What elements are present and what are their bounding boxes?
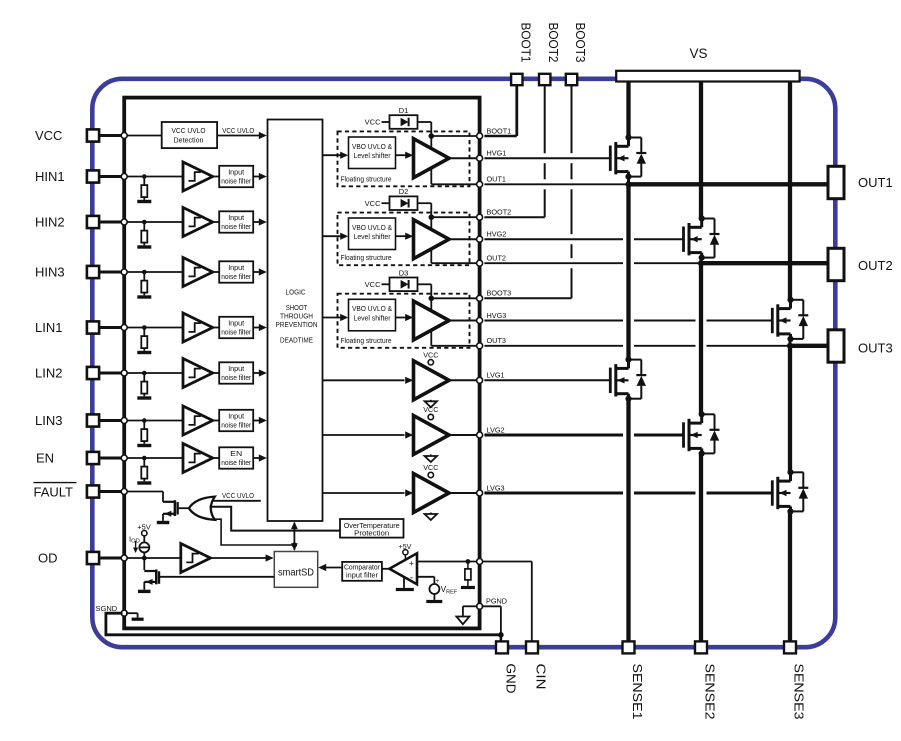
- wire BOOT3 to IC edge: [431, 297, 479, 299]
- high side gate driver 1: [414, 139, 450, 178]
- wire PGND to GND pin: [482, 605, 501, 607]
- pin EN: [87, 452, 99, 464]
- wire LVG1 to mosfet gate: [484, 379, 610, 381]
- svg-text:SGND: SGND: [96, 604, 118, 613]
- svg-text:SENSE2: SENSE2: [703, 664, 717, 720]
- svg-text:OUT2: OUT2: [487, 254, 506, 263]
- wire OD pin to IC: [99, 557, 124, 560]
- wire smartSD drive to Q8 gate: [159, 576, 274, 578]
- low side gate driver 3: [414, 474, 450, 513]
- diode D1 box: [390, 115, 418, 129]
- power mosfet high side Q3: [771, 308, 774, 333]
- node HVG3 at IC edge: [477, 318, 483, 324]
- svg-text:HIN3: HIN3: [35, 265, 65, 280]
- pin HIN3: [87, 266, 99, 278]
- pull-down resistor on HIN1: [143, 177, 145, 186]
- node BOOT2 at IC edge: [477, 214, 483, 220]
- svg-text:Input: Input: [228, 364, 245, 373]
- ground symbol PGND (open triangle): [456, 617, 469, 625]
- wire HVG1 to mosfet gate: [484, 157, 610, 159]
- svg-text:CIN: CIN: [534, 664, 548, 690]
- wire LVG2 output: [449, 434, 480, 436]
- schmitt trigger buffer LIN2: [183, 359, 213, 388]
- node HIN3 resistor tap: [142, 270, 147, 275]
- svg-text:Detection: Detection: [174, 135, 204, 144]
- wire smartSD fault into or-gate: [214, 519, 295, 545]
- ground bar for LIN2 resistor: [137, 396, 151, 399]
- wire logic to level shifter 3: [323, 317, 342, 319]
- svg-text:VCC: VCC: [35, 128, 62, 143]
- wire filter to logic LIN3: [253, 420, 259, 422]
- wire OUT2 floating return: [430, 249, 432, 263]
- wire BOOT1 to top pin: [484, 135, 516, 137]
- node comparator input at IC edge: [477, 559, 483, 565]
- body diode of high side Q2: [702, 218, 715, 220]
- pin VCC: [87, 129, 99, 141]
- pin OUT2: [828, 248, 844, 280]
- power mosfet low side Q4: [609, 368, 612, 393]
- ground bar for HIN2 resistor: [137, 245, 151, 248]
- ground bar for LIN1 resistor: [137, 351, 151, 354]
- wire EN pin to IC: [99, 457, 124, 460]
- pin FAULT: [87, 485, 99, 497]
- node HIN2 resistor tap: [142, 220, 147, 225]
- svg-text:-: -: [410, 572, 413, 583]
- wire buffer to filter HIN2: [213, 221, 220, 223]
- pin OD: [87, 552, 99, 564]
- wire FAULT to open drain transistor: [124, 491, 163, 493]
- svg-text:Input: Input: [228, 167, 245, 176]
- pin CIN: [526, 641, 538, 653]
- pin HIN2: [87, 216, 99, 228]
- svg-text:HIN1: HIN1: [35, 169, 65, 184]
- wire HVG2 output: [449, 238, 480, 240]
- open drain fault transistor Q7: [163, 501, 175, 503]
- node OUT1 power junction: [625, 181, 631, 187]
- wire LIN3 input net: [124, 420, 183, 422]
- block VBO UVLO level shifter 1: [349, 137, 396, 169]
- pin LIN2: [87, 367, 99, 379]
- node LIN1 junction at IC edge: [121, 325, 127, 331]
- svg-text:DEADTIME: DEADTIME: [280, 337, 313, 344]
- node OD junction at IC edge: [121, 555, 127, 561]
- ground bar for LIN3 resistor: [137, 444, 151, 447]
- ground bar for EN resistor: [137, 481, 151, 484]
- wire D3 to bootstrap node: [418, 283, 432, 285]
- ground bar for HIN1 resistor: [137, 200, 151, 203]
- wire BOOT2 to IC edge: [431, 216, 479, 218]
- comparator ground: [403, 578, 405, 588]
- svg-text:SENSE3: SENSE3: [792, 664, 806, 720]
- wire level shifter to driver 2: [396, 235, 407, 237]
- pin LIN3: [87, 414, 99, 426]
- wire buffer to filter HIN1: [213, 176, 220, 178]
- pull-down resistor on HIN2: [143, 222, 145, 231]
- wire buffer to filter LIN2: [213, 372, 220, 374]
- schmitt trigger buffer LIN3: [183, 406, 213, 435]
- block smartSD: [274, 552, 317, 588]
- wire Q2 source to OUT2 node: [700, 258, 703, 264]
- svg-text:VCC: VCC: [365, 199, 381, 208]
- +5V supply terminal comparator: [403, 550, 408, 555]
- wire LIN1 input net: [124, 327, 183, 329]
- block OverTemperature Protection: [340, 519, 404, 538]
- svg-text:VCC: VCC: [365, 118, 381, 127]
- svg-text:GND: GND: [504, 664, 518, 694]
- schmitt trigger buffer EN: [183, 444, 213, 473]
- wire low side mosfet 1 source to SENSE1 (thick): [626, 399, 630, 648]
- high side gate driver 3: [414, 301, 450, 340]
- wire buffer to filter EN: [213, 457, 220, 459]
- svg-text:VBO UVLO &: VBO UVLO &: [352, 142, 392, 151]
- block HIN3 noise filter: [219, 261, 253, 282]
- svg-text:Protection: Protection: [354, 529, 389, 538]
- wire CIN pin: [531, 562, 533, 642]
- current direction arrow: [135, 541, 137, 550]
- block VBO UVLO level shifter 2: [349, 218, 396, 250]
- pin BOOT2 top: [539, 74, 550, 85]
- node LIN3 junction at IC edge: [121, 418, 127, 424]
- floating structure 2 (dashed box): [338, 213, 470, 266]
- source node of high side Q3: [787, 336, 793, 342]
- svg-text:Input: Input: [228, 411, 245, 420]
- wire D1 to bootstrap node: [418, 121, 432, 123]
- pull-down resistor on LIN1: [143, 328, 145, 337]
- svg-text:LOGIC: LOGIC: [286, 290, 306, 297]
- wire filter to logic LIN1: [253, 327, 259, 329]
- block VBO UVLO level shifter 3: [349, 299, 396, 331]
- wire VS to high side mosfet 3 drain (thick): [788, 82, 792, 300]
- wire low side mosfet 3 source to SENSE3 (thick): [788, 511, 792, 647]
- svg-text:Input: Input: [228, 318, 245, 327]
- svg-text:THROUGH: THROUGH: [280, 314, 313, 321]
- wire comparator plus input to CIN: [417, 561, 532, 563]
- svg-text:noise filter: noise filter: [221, 328, 251, 337]
- wire HIN1 pin to IC: [99, 175, 124, 178]
- svg-text:Floating structure: Floating structure: [341, 336, 392, 345]
- svg-text:PREVENTION: PREVENTION: [276, 322, 318, 329]
- wire BOOT1 to IC edge: [431, 135, 479, 137]
- svg-text:LIN1: LIN1: [35, 320, 62, 335]
- wire VS to high side mosfet 1 drain (thick): [626, 82, 630, 138]
- wire LVG1 output: [449, 379, 480, 381]
- filter resistor to ground: [467, 562, 469, 569]
- node LIN3 resistor tap: [142, 418, 147, 423]
- wire filter to logic HIN3: [253, 271, 259, 273]
- node FAULT junction at IC edge: [121, 489, 127, 495]
- wire VCC to D2: [382, 202, 390, 204]
- pin OUT1: [828, 166, 844, 198]
- wire LVG3 to mosfet gate: [484, 492, 623, 495]
- svg-text:VBO UVLO &: VBO UVLO &: [352, 223, 392, 232]
- svg-text:OUT2: OUT2: [858, 258, 893, 273]
- node HIN3 junction at IC edge: [121, 269, 127, 275]
- svg-text:noise filter: noise filter: [221, 373, 251, 382]
- wire OUT2 down to low side mosfet 2 (thick): [699, 263, 703, 414]
- svg-text:Level shifter: Level shifter: [354, 151, 392, 160]
- node LVG2 at IC edge: [477, 432, 483, 438]
- block HIN1 noise filter: [219, 166, 253, 187]
- node HIN2 junction at IC edge: [121, 219, 127, 225]
- svg-text:EN: EN: [36, 451, 54, 466]
- wire BOOT3 to top pin: [484, 297, 571, 299]
- svg-text:BOOT3: BOOT3: [573, 23, 587, 63]
- diode D2: [401, 199, 409, 208]
- svg-text:input filter: input filter: [346, 572, 379, 579]
- svg-text:VCC: VCC: [423, 405, 438, 414]
- signal ground symbol: [126, 612, 138, 614]
- pull-down resistor on HIN3: [143, 272, 145, 281]
- schmitt trigger buffer LIN1: [183, 313, 213, 342]
- diode D2 box: [390, 196, 418, 210]
- wire VCC to D1: [382, 121, 390, 123]
- schmitt trigger buffer HIN3: [183, 258, 213, 287]
- node EN junction at IC edge: [121, 455, 127, 461]
- wire OD buffer to smartSD: [211, 557, 266, 559]
- floating structure 1 (dashed box): [338, 131, 470, 186]
- wire HIN3 input net: [124, 271, 183, 273]
- wire BOOT2 to top pin: [484, 216, 544, 218]
- pin SENSE1: [623, 641, 635, 653]
- wire PGND to ground symbol: [463, 605, 478, 607]
- svg-text:OUT3: OUT3: [858, 341, 893, 356]
- wire HVG3 output: [449, 320, 480, 322]
- wire logic to smartSD (bidirectional): [293, 523, 295, 550]
- wire logic to level shifter 2: [323, 235, 342, 237]
- svg-text:Comparator: Comparator: [344, 565, 381, 572]
- ground bar of fault transistor: [157, 521, 170, 524]
- node CIN filter tap: [466, 559, 471, 564]
- svg-text:FAULT: FAULT: [34, 485, 74, 500]
- wire level shifter to driver 3: [396, 317, 407, 319]
- block EN noise filter: [219, 447, 253, 468]
- wire HIN2 pin to IC: [99, 221, 124, 224]
- svg-text:BOOT1: BOOT1: [518, 23, 532, 63]
- high side gate driver 2: [414, 220, 450, 259]
- svg-text:SHOOT: SHOOT: [286, 305, 308, 312]
- low side gate driver 1: [414, 361, 450, 400]
- svg-text:LIN3: LIN3: [35, 413, 62, 428]
- wire OUT3 floating return: [430, 330, 432, 346]
- svg-text:Input: Input: [228, 213, 245, 222]
- svg-text:VCC: VCC: [423, 463, 438, 472]
- wire low side mosfet 2 source to SENSE2 (thick): [699, 453, 703, 647]
- wire level shifter to driver 1: [396, 154, 407, 156]
- wire filter to logic HIN2: [253, 221, 259, 223]
- svg-text:noise filter: noise filter: [221, 272, 251, 281]
- ground of low side driver 3: [430, 513, 432, 515]
- schmitt trigger buffer OD: [181, 544, 211, 573]
- wire HVG2 to mosfet gate: [484, 238, 623, 240]
- svg-text:LVG1: LVG1: [487, 371, 505, 380]
- block LOGIC shoot-through prevention deadtime: [268, 120, 323, 522]
- body diode of high side Q3: [791, 299, 804, 301]
- ground bar for HIN3 resistor: [137, 295, 151, 298]
- wire EN input net: [124, 457, 183, 459]
- body diode of low side Q4: [629, 359, 642, 361]
- svg-text:VCC UVLO: VCC UVLO: [222, 491, 254, 500]
- pin OUT3: [828, 330, 844, 362]
- wire logic to level shifter 1: [323, 154, 342, 156]
- wire VCC to UVLO detection: [124, 135, 162, 137]
- pin BOOT3 top: [566, 74, 577, 85]
- svg-text:HVG3: HVG3: [487, 311, 507, 320]
- block HIN2 noise filter: [219, 211, 253, 232]
- wire Q1 source to OUT1 node: [627, 177, 630, 185]
- comparator U3: [382, 568, 390, 570]
- wire filter to smartSD: [326, 567, 342, 569]
- source node of low side Q4: [625, 396, 631, 402]
- svg-text:PGND: PGND: [486, 597, 507, 606]
- svg-text:BOOT2: BOOT2: [546, 23, 560, 63]
- diode D3: [401, 280, 409, 289]
- ground of low side driver 1: [430, 400, 432, 402]
- source node of low side Q6: [787, 508, 793, 514]
- node OUT3 at IC edge: [477, 343, 483, 349]
- svg-text:D3: D3: [399, 268, 409, 277]
- +5V supply terminal: [142, 531, 147, 536]
- power mosfet high side Q2: [682, 227, 685, 252]
- wire logic to low side driver 2: [323, 434, 405, 436]
- pull-down resistor on LIN2: [143, 373, 145, 382]
- svg-text:VCC: VCC: [423, 351, 438, 360]
- node OUT2 power junction: [698, 260, 704, 266]
- wire filter to logic HIN1: [253, 176, 259, 178]
- wire HIN3 pin to IC: [99, 271, 124, 274]
- node smartSD fault tap: [292, 542, 297, 547]
- wire logic to low side driver 3: [323, 492, 405, 494]
- gate-driver IC boundary: [124, 98, 479, 629]
- drain node of low side Q6: [787, 469, 793, 475]
- node SGND at IC edge: [121, 610, 127, 616]
- svg-text:LVG2: LVG2: [487, 425, 505, 434]
- wire OUT3 phase rail (thick): [790, 344, 828, 348]
- ground of low side driver 2: [430, 455, 432, 457]
- wire LVG3 output: [449, 492, 480, 494]
- wire OUT1 sense return: [484, 183, 626, 185]
- wire buffer to filter LIN3: [213, 420, 220, 422]
- wire OUT3 sense return: [484, 345, 623, 347]
- svg-text:OUT1: OUT1: [487, 175, 506, 184]
- svg-text:+: +: [436, 578, 440, 585]
- drain node of high side Q1: [625, 134, 631, 140]
- svg-text:Floating structure: Floating structure: [341, 253, 392, 262]
- wire HVG3 to mosfet gate: [484, 320, 623, 322]
- svg-text:D2: D2: [399, 187, 409, 196]
- wire OD input net: [124, 557, 183, 559]
- svg-text:smartSD: smartSD: [278, 567, 314, 579]
- node BOOT3 at IC edge: [477, 295, 483, 301]
- wire HIN1 input net: [124, 176, 183, 178]
- module boundary (blue rounded border): [92, 79, 835, 647]
- node bootstrap junction 3: [429, 296, 435, 302]
- node HIN1 resistor tap: [142, 174, 147, 179]
- wire OUT1 down to low side mosfet 1 (thick): [626, 184, 630, 359]
- svg-text:HVG1: HVG1: [487, 149, 507, 158]
- svg-text:VCC UVLO: VCC UVLO: [172, 126, 206, 135]
- node LVG3 at IC edge: [477, 490, 483, 496]
- power mosfet low side Q5: [682, 422, 685, 447]
- power mosfet low side Q6: [771, 480, 774, 505]
- block VCC UVLO Detection: [162, 122, 217, 148]
- pin SENSE2: [695, 641, 707, 653]
- pin SENSE3: [784, 641, 796, 653]
- svg-text:VS: VS: [689, 46, 707, 61]
- source node of high side Q2: [699, 255, 705, 261]
- wire OUT1 phase rail (thick): [629, 182, 829, 186]
- svg-text:Input: Input: [228, 263, 245, 272]
- svg-text:SENSE1: SENSE1: [630, 664, 644, 720]
- svg-text:LIN2: LIN2: [35, 366, 62, 381]
- block LIN2 noise filter: [219, 362, 253, 383]
- svg-text:noise filter: noise filter: [221, 458, 251, 467]
- svg-text:BOOT1: BOOT1: [487, 126, 512, 135]
- diode D1: [401, 118, 409, 127]
- svg-text:OUT1: OUT1: [858, 175, 893, 190]
- wire buffer to filter HIN3: [213, 271, 220, 273]
- power mosfet high side Q1: [609, 146, 612, 171]
- drain node of high side Q3: [787, 297, 793, 303]
- block LIN3 noise filter: [219, 410, 253, 431]
- schmitt trigger buffer HIN2: [183, 208, 213, 237]
- drain node of low side Q5: [699, 411, 705, 417]
- wire OUT2 sense return: [484, 262, 623, 264]
- pull-down resistor on EN: [143, 458, 145, 467]
- schmitt trigger buffer HIN1: [183, 162, 213, 191]
- wire FAULT pin to IC: [99, 490, 124, 493]
- wire LIN3 pin to IC: [99, 419, 124, 422]
- svg-text:+: +: [409, 558, 414, 568]
- wire filter to logic EN: [253, 457, 259, 459]
- body diode of high side Q1: [629, 137, 642, 139]
- node HVG2 at IC edge: [477, 236, 483, 242]
- wire HVG1 output: [449, 157, 480, 159]
- body diode of low side Q6: [791, 471, 804, 473]
- svg-text:noise filter: noise filter: [221, 177, 251, 186]
- wire overtemperature into or-gate: [210, 507, 341, 531]
- source node of high side Q1: [625, 174, 631, 180]
- svg-text:LVG3: LVG3: [487, 483, 505, 492]
- wire VCC UVLO into or-gate: [213, 500, 261, 502]
- svg-text:noise filter: noise filter: [221, 222, 251, 231]
- node OUT2 at IC edge: [477, 260, 483, 266]
- wire filter to logic LIN2: [253, 372, 259, 374]
- pin GND: [496, 641, 508, 653]
- node HVG1 at IC edge: [477, 155, 483, 161]
- wire OUT2 phase rail (thick): [701, 261, 828, 265]
- wire LIN2 pin to IC: [99, 372, 124, 375]
- VS power bus bar: [616, 71, 799, 82]
- wire D2 to bootstrap node: [418, 202, 432, 204]
- svg-text:OUT3: OUT3: [487, 336, 506, 345]
- wire HIN2 input net: [124, 221, 183, 223]
- node LIN2 junction at IC edge: [121, 370, 127, 376]
- node OUT3 power junction: [787, 343, 793, 349]
- block LIN1 noise filter: [219, 317, 253, 338]
- wire VS to high side mosfet 2 drain (thick): [699, 82, 703, 219]
- node EN resistor tap: [142, 456, 147, 461]
- svg-text:Floating structure: Floating structure: [341, 174, 392, 183]
- node bootstrap junction 2: [429, 214, 435, 220]
- svg-text:VCC: VCC: [365, 280, 381, 289]
- svg-text:Level shifter: Level shifter: [354, 232, 392, 241]
- svg-text:HIN2: HIN2: [35, 215, 65, 230]
- node bootstrap junction 1: [429, 133, 435, 139]
- node PGND at IC edge: [477, 603, 483, 609]
- svg-text:BOOT3: BOOT3: [487, 289, 512, 298]
- svg-text:VCC UVLO: VCC UVLO: [222, 126, 254, 135]
- drain node of low side Q4: [625, 357, 631, 363]
